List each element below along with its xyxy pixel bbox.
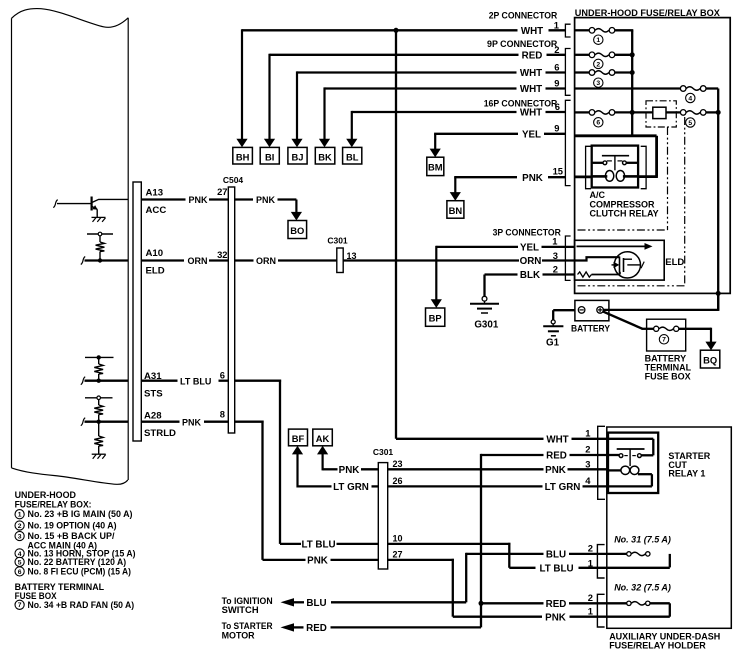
svg-text:LT GRN: LT GRN [333,482,369,493]
3P connector bracket [565,236,570,280]
svg-text:CLUTCH RELAY: CLUTCH RELAY [590,209,659,219]
svg-text:1: 1 [596,37,600,44]
svg-text:2: 2 [18,523,22,530]
ground (STRLD pull-down) [92,454,106,459]
node line with terminal circle (ELD row) [87,232,113,236]
svg-text:UNDER-HOOD FUSE/RELAY BOX: UNDER-HOOD FUSE/RELAY BOX [575,8,721,19]
svg-text:BL: BL [346,152,359,163]
svg-text:BJ: BJ [292,152,304,163]
wire PNK (16P pin15) [454,165,565,184]
svg-text:PNK: PNK [182,417,202,427]
svg-text:7: 7 [662,337,666,344]
arrow drop to BI [268,54,270,141]
16P connector bracket [565,100,570,185]
resistor R4 (STRLD row lower) [94,422,103,454]
svg-text:WHT: WHT [520,68,542,79]
svg-text:LT BLU: LT BLU [301,540,335,551]
node line (STS row) [85,355,114,359]
svg-text:No. 32 (7.5 A): No. 32 (7.5 A) [614,583,671,593]
wire label PNK pin3 [339,459,591,476]
fuse 2 wire [575,52,635,57]
legend item 1 [15,509,133,520]
ground G1 [543,320,563,349]
9P connector bracket [565,49,570,96]
connector box BK [315,147,335,164]
svg-text:LT BLU: LT BLU [539,563,573,574]
svg-text:4: 4 [688,95,692,102]
fuse 31 pin digits [588,542,593,568]
wire battery to terminal fuse box (diagonal) [603,311,643,329]
fuse 4 No.13 HORN STOP [680,86,706,103]
starter cut relay 1 [608,433,658,493]
arrow drop YEL to BP [435,246,437,301]
wire RED feed (9P pin2) [270,54,566,56]
wire WHT feed (9P pin9) [325,87,566,89]
svg-text:PNK: PNK [545,465,566,476]
2P connector bracket [565,24,570,37]
svg-text:1: 1 [554,19,559,30]
connector box BO [288,221,307,239]
svg-text:A28: A28 [144,411,162,422]
svg-text:BO: BO [290,225,304,236]
wire label WHT pin9 [520,78,560,96]
wire RED (relay pin2) with vertical [481,454,608,628]
dash-dot boundary vertical (ELD enclosure) [684,117,686,286]
wire WHT vertical feed to starter cut relay [396,30,608,439]
svg-text:BP: BP [429,313,442,324]
label A/C COMPRESSOR CLUTCH RELAY [590,190,659,219]
starter cut relay 1 connector bracket [598,426,605,499]
arrow drop to BJ [296,71,298,140]
wire label WHT pin6 [520,62,560,80]
wire right-side vertical x718 [717,89,719,311]
ELD unit box [575,240,665,280]
connector C504 [223,175,244,433]
arrow To STARTER MOTOR [222,621,304,641]
svg-text:PNK: PNK [545,612,566,623]
svg-text:No. 34 +B RAD FAN (50 A): No. 34 +B RAD FAN (50 A) [28,600,135,611]
arrow drop to BL [351,111,353,140]
fuse 7 wire [642,328,655,330]
svg-text:23: 23 [393,459,403,469]
connector C301 (engine harness) [327,236,356,273]
connector box BQ [700,350,719,368]
legend item 3 [15,531,115,552]
svg-text:BLU: BLU [306,598,326,609]
svg-text:PNK: PNK [307,556,328,567]
svg-text:WHT: WHT [521,26,543,37]
fuse 6 wire [575,110,635,115]
wire label ORN (3P pin3) [520,250,558,267]
wire BLU fuse31 pin2 to ignition switch [306,550,626,610]
connector box AK [313,429,333,446]
svg-text:1: 1 [552,235,557,246]
dash-dot boundary bottom (A/C relay enclosure) [578,229,668,231]
arrow drop to BM [434,134,436,150]
wire label RED pin2 [546,444,590,462]
svg-text:26: 26 [393,476,403,486]
svg-text:BLU: BLU [546,550,566,561]
ELD output arrow [577,243,653,250]
svg-text:3P CONNECTOR: 3P CONNECTOR [493,227,561,238]
arrow drop to BK [323,87,325,140]
relay box fix: bottom segment white cover none [0,0,1,1]
svg-text:BH: BH [236,152,250,163]
wire label LT GRN pin4 [333,475,591,493]
wire LT BLU (C301 pin10) [280,540,510,551]
terminal label A10/ELD [146,248,165,277]
fuse 5 wire through main relay [632,110,721,115]
connector C301 (dash harness) [373,447,394,569]
svg-text:3: 3 [596,80,600,87]
wire PNK (C301 pin27) [263,556,454,567]
svg-text:BM: BM [428,162,443,173]
svg-text:WHT: WHT [546,434,568,445]
svg-text:C301: C301 [327,236,348,246]
fuse 31 (7.5A) [627,552,650,556]
junction dot on ELD wire [98,258,102,262]
svg-text:8: 8 [220,409,225,420]
fuse 32 bracket [597,594,604,627]
wire WHT feed to 2P connector [242,29,565,31]
svg-text:LT BLU: LT BLU [180,376,211,386]
svg-text:YEL: YEL [522,129,541,140]
legend BATTERY TERMINAL FUSE BOX [15,582,105,602]
svg-text:6: 6 [555,101,560,112]
svg-text:6: 6 [18,569,22,576]
svg-text:ORN: ORN [520,256,542,267]
wire STRLD vertical drop at x262.5 [261,421,263,560]
svg-text:9: 9 [554,78,559,89]
wire label WHT 16P pin6 [520,101,560,119]
legend UNDER-HOOD FUSE/RELAY BOX [15,490,92,511]
svg-text:7: 7 [18,602,22,609]
connector box BI [260,147,279,164]
svg-text:6: 6 [554,62,559,73]
legend item 7 [15,600,134,611]
legend item 5 [15,557,126,568]
svg-text:2: 2 [585,444,590,455]
svg-text:6: 6 [596,120,600,127]
connector box BH [233,147,253,164]
connector box BL [343,147,362,164]
under-hood fuse/relay box outline [575,18,731,294]
wire PNK vertical x452.8 to fuse32 pin1 [453,559,670,624]
ELD internal resistor [578,272,621,277]
svg-text:SWITCH: SWITCH [222,605,259,616]
svg-text:2: 2 [588,542,593,553]
svg-text:BI: BI [265,152,274,163]
svg-text:1: 1 [18,512,22,519]
wire fuse7 output to BQ [679,328,717,351]
arrow up to AK [322,453,324,471]
A/C compressor clutch relay U1 [592,146,638,188]
svg-text:RED: RED [546,451,567,462]
wire WHT feed (9P pin6) [297,71,565,73]
resistor R1 (ELD row) [96,236,105,261]
transistor Q1 (ACC driver) [53,197,128,218]
svg-text:WHT: WHT [520,84,542,95]
svg-text:3: 3 [585,459,590,470]
wire LT GRN (relay pin4) [298,485,609,487]
resistor R2 (STS row) [94,357,103,380]
ground (transistor emitter) [92,217,106,222]
wire WHT feed (16P pin6) [352,111,566,113]
legend item 4 [15,548,136,559]
wire YEL (16P pin9) [434,123,565,141]
ELD MOSFET sensor symbol [612,252,645,278]
svg-text:ELD: ELD [146,266,165,277]
svg-text:FUSE BOX: FUSE BOX [645,371,691,381]
svg-text:A13: A13 [146,188,164,199]
label BATTERY TERMINAL FUSE BOX [645,353,692,381]
wire YEL (3P pin1) [436,235,574,253]
svg-text:BATTERY: BATTERY [571,324,611,335]
dash-dot box around relay element [646,101,676,127]
svg-text:6: 6 [220,370,225,381]
svg-text:PNK: PNK [522,173,543,184]
svg-text:No. 23 +B IG MAIN (50 A): No. 23 +B IG MAIN (50 A) [28,509,133,520]
svg-text:32: 32 [217,249,227,260]
junction dot on STS wire [97,379,101,383]
wire PNK (relay pin3) [323,468,608,470]
svg-text:G1: G1 [546,338,560,349]
svg-text:BF: BF [292,433,305,444]
svg-text:2: 2 [554,44,559,55]
svg-text:PNK: PNK [189,195,209,205]
svg-text:5: 5 [688,120,692,127]
svg-text:STRLD: STRLD [144,428,176,439]
svg-text:RED: RED [306,623,327,634]
terminal label A28/STRLD [144,411,176,440]
terminal label A13/ACC [146,188,167,217]
junction dot RED to fuse32 [479,601,484,606]
svg-text:15: 15 [553,165,563,176]
fuse 32 wires [481,599,670,617]
battery terminal fuse box outline [647,319,686,351]
wire LT BLU jog down to fuse31 [509,543,670,575]
svg-text:ORN: ORN [188,256,208,266]
svg-text:4: 4 [585,475,591,486]
wire BLK (3P pin2) [485,263,575,281]
svg-text:No. 19 OPTION (40 A): No. 19 OPTION (40 A) [28,521,117,532]
svg-text:2: 2 [596,61,600,68]
svg-text:FUSE/RELAY HOLDER: FUSE/RELAY HOLDER [609,641,706,651]
dash-dot boundary vertical (A/C relay enclosure) [667,127,669,230]
fuse 1 wire [575,30,634,137]
wire battery negative to G1 [553,310,575,320]
svg-text:3: 3 [553,250,558,261]
dash-dot boundary bottom (ELD enclosure) [578,285,685,287]
wire battery positive feed [603,293,718,311]
arrow drop to BH [241,29,243,140]
wire RED to starter motor [306,623,481,634]
label AUXILIARY UNDER-DASH FUSE/RELAY HOLDER [609,632,720,651]
svg-text:27: 27 [393,549,403,559]
ground G301 [470,275,499,331]
svg-text:ACC: ACC [146,205,167,216]
relay element (dash-dot enclosed) [653,107,666,118]
battery B1 [571,300,611,334]
svg-text:C301: C301 [373,447,394,457]
svg-text:A/C: A/C [590,190,606,200]
fuse 2 No.19 OPTION [589,52,615,69]
svg-text:2: 2 [588,592,593,603]
svg-text:C504: C504 [223,175,244,185]
legend item 2 [15,521,117,532]
wire label WHT pin1 [521,19,559,37]
arrow drop to BN [454,177,456,193]
fuse 3 No.15 +B BACK UP/ACC MAIN [589,70,615,88]
connector box BP [426,308,445,326]
junction dot WHT/starter-cut feed [394,28,399,33]
label STARTER CUT RELAY 1 [668,451,710,479]
svg-text:LT GRN: LT GRN [545,482,581,493]
svg-text:No. 8 FI ECU (PCM) (15 A): No. 8 FI ECU (PCM) (15 A) [28,566,132,577]
wire ACC: bracket to C504 [141,198,296,200]
A/C relay right bracket [641,146,646,188]
fuse 32 pin digits [588,592,593,616]
svg-text:9P CONNECTOR: 9P CONNECTOR [487,39,557,50]
fuse 5 No.22 BATTERY [680,110,706,128]
resistor R3 (STRLD row upper) [94,400,103,422]
svg-text:10: 10 [393,533,403,543]
A/C relay left bracket [586,146,591,188]
svg-text:ELD: ELD [665,257,684,268]
fuse 6 No.8 FI ECU (PCM) [589,110,615,127]
svg-text:PNK: PNK [256,195,276,205]
connector box BM [427,157,444,175]
svg-text:BLK: BLK [520,270,540,281]
svg-text:No. 31 (7.5 A): No. 31 (7.5 A) [614,535,671,545]
junction dot on STRLD wire [97,420,101,424]
node line with terminal circle (STRLD row) [85,396,113,400]
svg-text:ORN: ORN [256,256,276,266]
svg-text:5: 5 [18,559,22,566]
terminal label A31/STS [144,371,163,400]
svg-text:AK: AK [316,433,330,444]
wire STRLD row PNK (A28) [81,418,264,426]
connector box BF [289,429,308,446]
auxiliary under-dash fuse/relay holder outline [607,427,732,628]
svg-text:A10: A10 [146,248,164,259]
svg-text:BN: BN [449,205,463,216]
fuse 7 No.34 +B RAD FAN [654,326,679,344]
wire thick YEL feed inside box [575,136,658,177]
svg-text:2P CONNECTOR: 2P CONNECTOR [489,10,558,21]
fuse 32 (7.5A) [627,601,650,605]
svg-text:WHT: WHT [520,108,542,119]
svg-text:BQ: BQ [703,355,717,366]
wire ELD row ORN (A10) [81,257,620,265]
PCM connector bracket [133,182,141,441]
svg-text:1: 1 [585,427,590,438]
svg-text:G301: G301 [474,319,499,330]
svg-text:MOTOR: MOTOR [222,630,255,641]
svg-text:9: 9 [554,123,559,134]
fuse 3 wire [575,70,635,75]
wire label WHT (relay pin1) [546,427,590,445]
wire STS vertical drop at x280 [279,380,281,544]
fuse 31 loop wire [669,554,671,568]
fuse 4 wire [575,87,719,89]
fuse 31 bracket [597,545,604,578]
svg-text:3: 3 [18,533,22,540]
svg-text:27: 27 [217,186,227,197]
svg-text:1: 1 [588,558,593,569]
svg-text:4: 4 [18,551,22,558]
junction dot at box bottom [716,291,721,296]
svg-text:STS: STS [144,389,163,400]
wire label RED pin2 [522,44,560,62]
connector box BJ [288,147,307,164]
svg-text:A31: A31 [144,371,162,382]
svg-text:1: 1 [588,605,593,616]
torn-page harness strip outline [12,9,129,485]
fuse 1 No.23 +B IG MAIN [589,28,615,45]
wire ACC elbow down to BO [291,200,302,221]
arrow To IGNITION SWITCH [222,596,304,616]
svg-text:2: 2 [553,263,558,274]
svg-text:13: 13 [347,251,357,261]
arrow up to BF [296,453,298,488]
wire STS row LT BLU (A31) [81,377,281,385]
legend item 6 [15,566,131,577]
svg-text:YEL: YEL [520,243,539,254]
svg-text:RED: RED [522,50,543,61]
svg-text:RELAY 1: RELAY 1 [668,469,705,479]
svg-text:BK: BK [318,152,332,163]
svg-text:RED: RED [546,599,567,610]
svg-text:PNK: PNK [339,465,360,476]
connector box BN [447,201,464,219]
